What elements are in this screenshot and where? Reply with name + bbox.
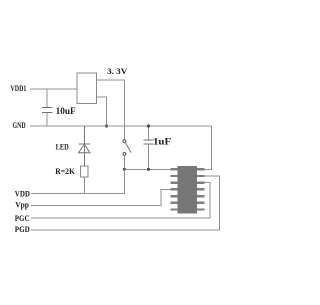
node VDD1 label [11,84,27,93]
switch S1 top contact [123,140,126,143]
junction regulator-GND [105,124,108,127]
wire regulator ground pin [97,97,107,126]
capacitor C1 10uF bottom lead [46,112,48,126]
svg-text:VDD1: VDD1 [11,84,27,93]
wire PGD row to IC pin R2 [31,176,220,230]
node GND label [13,121,26,130]
node Vpp label [15,201,29,210]
switch S1 bottom contact [123,153,126,156]
wire GND right bus to IC pin1 [204,126,212,169]
wire Vpp row to IC pin L4 [31,189,171,205]
junction C2-VDDnet [147,168,150,171]
IC U2 pins right [197,168,204,211]
junction switch-VDDnet [123,168,126,171]
wire switch to VDD net [123,155,125,169]
svg-text:PGC: PGC [15,214,30,223]
svg-text:Vpp: Vpp [15,201,29,210]
IC U2 body [178,166,197,214]
node PGC label [15,214,30,223]
capacitor C2 value label 1uF [153,138,171,148]
capacitor C1 value label 10uF [56,107,76,117]
svg-text:VDD: VDD [15,189,30,198]
resistor R1 body [81,166,89,177]
LED D1 cathode bar [79,143,91,145]
capacitor C2 1uF bottom lead [148,144,150,169]
junction C2-GND [147,124,150,127]
wire VDD1 row [30,88,77,90]
capacitor C2 1uF top lead [148,126,150,140]
wire regulator output 3.3V [97,80,125,140]
svg-text:GND: GND [13,121,26,130]
resistor R1 bottom lead [83,177,85,193]
svg-text:1uF: 1uF [153,138,171,148]
node VDD label [15,189,30,198]
node 3.3V label [107,67,127,76]
wire GND row [30,125,212,127]
IC U2 pins left [171,168,178,211]
LED D1 label [56,143,69,152]
switch S1 blade [125,142,131,152]
svg-text:R=2K: R=2K [55,167,75,176]
capacitor C1 10uF plates [42,106,53,108]
svg-text:LED: LED [56,143,69,152]
node PGD label [15,225,30,234]
svg-text:PGD: PGD [15,225,30,234]
wire VDD row [31,169,124,193]
capacitor C2 1uF plates [144,139,154,141]
resistor R1 label R=2K [55,167,75,176]
regulator U1 [77,73,97,104]
capacitor C1 10uF top lead [46,89,48,107]
LED D1 bottom lead [83,153,85,166]
LED D1 triangle [79,144,91,152]
wire VDD net to IC pin L1 [124,168,171,170]
svg-text:3. 3V: 3. 3V [107,67,127,76]
LED D1 top lead [83,126,85,153]
svg-text:10uF: 10uF [56,107,76,117]
wire PGC row to IC pin R3 [31,183,210,218]
